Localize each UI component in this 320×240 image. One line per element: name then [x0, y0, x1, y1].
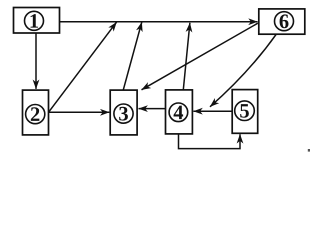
- node 2 circled digit: [26, 104, 45, 126]
- wire: arrow 3 up to top line (merge): [123, 22, 142, 90]
- svg-text:3: 3: [118, 103, 128, 125]
- svg-text:4: 4: [173, 102, 183, 124]
- node 1 circled digit: [25, 11, 44, 33]
- node 4 circled digit: [169, 102, 188, 124]
- node 5 circled digit: [235, 100, 255, 122]
- wire: arrow 4 to 5 (bottom U loop): [179, 134, 241, 149]
- node 6 circled digit: [275, 11, 294, 33]
- wire: arrow 4 to 3 (horizontal): [139, 108, 166, 110]
- wire: arrow 2 to 3 (horizontal): [49, 111, 110, 113]
- box 5: [232, 90, 258, 134]
- svg-text:2: 2: [30, 104, 40, 126]
- box 3: [110, 90, 137, 135]
- wire: arrow 6 to 3 (long diagonal, arrowhead at box 3 corner): [142, 23, 258, 90]
- node 3 circled digit: [114, 103, 133, 125]
- box 2: [23, 90, 49, 135]
- svg-text:1: 1: [29, 11, 39, 33]
- wire: arrow 2 up to top line (merge): [49, 22, 117, 112]
- svg-text:6: 6: [279, 11, 289, 33]
- wire: arrow 1 to 2 (vertical down): [35, 33, 37, 89]
- wire: arrow 4 up to top line (merge): [183, 23, 190, 90]
- box 4: [166, 90, 193, 134]
- wire: arrow 5 to 4 (horizontal): [193, 110, 232, 112]
- wire: arrow 6 down to line 5-4 (diagonal, arrowhead at line): [210, 34, 276, 107]
- speck (scan artifact, bottom-right edge): [308, 149, 310, 152]
- box 1: [14, 8, 60, 34]
- svg-text:5: 5: [239, 100, 249, 122]
- box 6: [259, 9, 305, 34]
- wire: arrow 1 from box 1 to box 6 (top horizontal line): [60, 21, 258, 23]
